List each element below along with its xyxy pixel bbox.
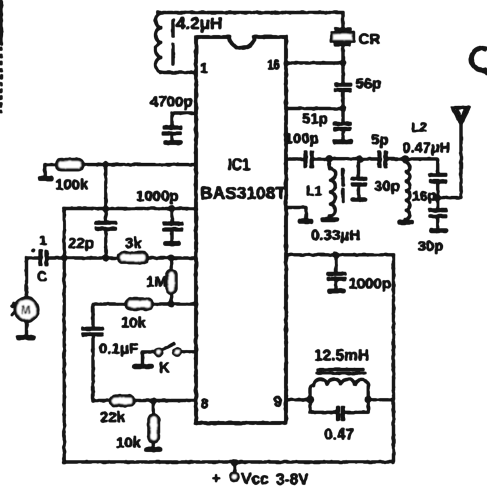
capacitor 51p bbox=[302, 109, 351, 139]
svg-text:L2: L2 bbox=[412, 120, 427, 135]
svg-text:8: 8 bbox=[201, 396, 209, 413]
capacitor 100p bbox=[285, 131, 330, 169]
ground bbox=[335, 140, 351, 144]
capacitor C bbox=[27, 232, 48, 284]
svg-text:M: M bbox=[21, 305, 31, 317]
svg-text:1M: 1M bbox=[146, 274, 167, 291]
svg-text:16p: 16p bbox=[412, 188, 436, 204]
svg-text:12.5mH: 12.5mH bbox=[314, 348, 369, 365]
wire y304 bbox=[93, 303, 196, 305]
capacitor 1000p bbox=[327, 255, 391, 292]
ground bbox=[353, 198, 365, 202]
svg-text:56p: 56p bbox=[356, 76, 382, 93]
wire top rail to crystal bbox=[158, 13, 343, 28]
ground bbox=[40, 177, 51, 181]
wire to microphone bbox=[25, 258, 27, 298]
svg-text:51p: 51p bbox=[302, 111, 328, 128]
svg-text:+: + bbox=[212, 470, 220, 486]
wire bias rail y208 bbox=[64, 207, 196, 209]
resistor 10k bbox=[121, 299, 152, 331]
svg-text:0.47: 0.47 bbox=[324, 427, 354, 444]
wire bbox=[329, 157, 360, 159]
ground bbox=[147, 448, 161, 452]
capacitor 30p bbox=[351, 159, 400, 197]
wire pin to ground bbox=[286, 208, 306, 218]
capacitor 56p bbox=[334, 63, 381, 109]
ground bbox=[330, 289, 344, 293]
inductor L1 0.33uH bbox=[306, 159, 360, 244]
wire to antenna bbox=[438, 125, 461, 198]
svg-text:1: 1 bbox=[39, 232, 47, 248]
IC IC1 BAS3108T bbox=[196, 37, 286, 423]
svg-text:22k: 22k bbox=[100, 409, 126, 426]
svg-text:IC1: IC1 bbox=[228, 156, 251, 174]
Vcc terminal bbox=[212, 462, 309, 488]
capacitor 16p bbox=[412, 175, 447, 204]
svg-text:100k: 100k bbox=[55, 177, 89, 194]
wire pin to 4700p bbox=[172, 113, 196, 126]
svg-text:0.47μH: 0.47μH bbox=[403, 141, 451, 157]
ground bbox=[19, 336, 34, 340]
wire y400 pin8 bbox=[93, 399, 196, 401]
wire pin9 bbox=[286, 399, 310, 401]
resistor 10k vertical bbox=[116, 401, 158, 452]
wire pin16 bbox=[286, 62, 343, 64]
svg-text:0.33μH: 0.33μH bbox=[311, 227, 360, 244]
ground bbox=[135, 364, 152, 368]
svg-text:16: 16 bbox=[268, 58, 280, 74]
ground bbox=[300, 219, 312, 223]
wire bottom supply rail bbox=[64, 461, 394, 463]
switch K bbox=[143, 344, 197, 377]
ground bbox=[166, 242, 179, 246]
svg-text:L1: L1 bbox=[306, 183, 323, 199]
svg-text:5p: 5p bbox=[371, 132, 389, 149]
resistor 100k bbox=[45, 160, 196, 194]
svg-text:30p: 30p bbox=[374, 178, 400, 195]
svg-text:10k: 10k bbox=[116, 435, 142, 452]
inductor 4.2uH bbox=[156, 13, 223, 73]
svg-text:3k: 3k bbox=[125, 235, 142, 252]
svg-text:Vcc: Vcc bbox=[241, 471, 269, 488]
capacitor 30p bbox=[418, 198, 448, 255]
svg-text:100p: 100p bbox=[285, 131, 319, 148]
svg-text:10k: 10k bbox=[121, 315, 147, 332]
resistor 1M bbox=[146, 258, 176, 304]
capacitor 1000p bbox=[136, 188, 183, 241]
svg-text:3-8V: 3-8V bbox=[276, 472, 309, 489]
wire bbox=[405, 159, 438, 173]
crystal CR bbox=[332, 29, 381, 63]
inductor 12.5mH bbox=[310, 348, 369, 413]
svg-text:C: C bbox=[37, 268, 47, 284]
ground bbox=[323, 218, 337, 222]
partial glyph right edge bbox=[471, 48, 487, 70]
svg-text:BAS3108T: BAS3108T bbox=[200, 183, 286, 203]
svg-text:4700p: 4700p bbox=[150, 94, 193, 111]
wire vcc top y255 bbox=[286, 254, 394, 256]
svg-text:1: 1 bbox=[200, 60, 208, 76]
svg-text:1000p: 1000p bbox=[349, 276, 392, 293]
inductor L2 0.47uH bbox=[403, 120, 451, 220]
svg-text:30p: 30p bbox=[418, 238, 444, 255]
antenna bbox=[452, 108, 469, 125]
ground bbox=[166, 141, 181, 145]
svg-text:4.2μH: 4.2μH bbox=[176, 14, 222, 33]
svg-text:K: K bbox=[159, 360, 170, 377]
resistor 3k bbox=[119, 235, 148, 263]
wire left vertical x64 bbox=[63, 209, 65, 463]
ground bbox=[432, 229, 447, 233]
svg-text:1000p: 1000p bbox=[136, 188, 179, 205]
capacitor 22p bbox=[68, 164, 117, 258]
node junction bbox=[103, 206, 109, 212]
wire pin15 bbox=[286, 107, 343, 109]
svg-text:9: 9 bbox=[274, 394, 282, 411]
capacitor 0.47 bbox=[310, 406, 368, 443]
capacitor 0.1uF bbox=[82, 304, 139, 401]
svg-text:22p: 22p bbox=[68, 235, 94, 252]
capacitor 4700p bbox=[150, 94, 193, 141]
capacitor 5p bbox=[371, 132, 405, 169]
wire coil bottom to pin 1 bbox=[160, 71, 196, 73]
wire bbox=[360, 158, 378, 160]
ground bbox=[400, 220, 412, 224]
svg-text:CR: CR bbox=[359, 31, 381, 48]
svg-text:0.1μF: 0.1μF bbox=[99, 341, 138, 358]
node junction 100k bbox=[103, 161, 109, 167]
wire audio rail y258 bbox=[49, 257, 196, 259]
wire right vertical bbox=[392, 255, 394, 463]
resistor 22k bbox=[100, 396, 134, 426]
microphone M bbox=[12, 298, 38, 335]
wire tank to rail bbox=[368, 399, 393, 401]
